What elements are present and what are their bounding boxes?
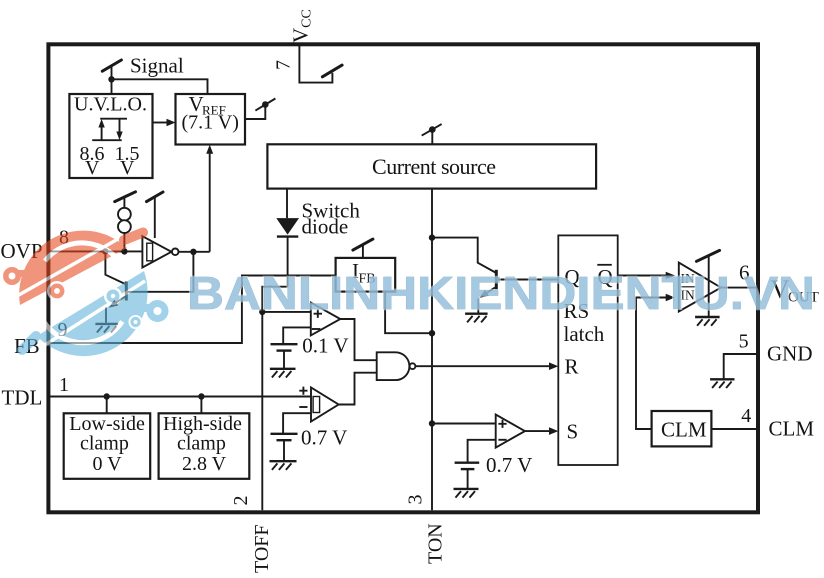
svg-text:GND: GND xyxy=(767,342,813,366)
U5 minus sign xyxy=(312,328,321,330)
wire diode branch to TOFF node xyxy=(262,287,287,312)
svg-text:0.1 V: 0.1 V xyxy=(302,333,348,357)
logo white diagonal cut blue xyxy=(45,281,145,345)
wire current source I1 to OVP wire xyxy=(123,233,125,251)
svg-text:clamp: clamp xyxy=(80,433,129,455)
node TOFF junction xyxy=(259,309,265,315)
UVLO hysteresis up arrow xyxy=(101,126,103,140)
wire current source to switch diode xyxy=(286,189,288,219)
switch above I_FB xyxy=(353,239,373,250)
switch at VREF xyxy=(255,99,275,111)
logo white pad cut small salmon ring xyxy=(47,281,67,301)
comparator U5 (0.1 V) xyxy=(311,303,341,336)
ground pin5 xyxy=(710,378,734,380)
wire OVP pin 8 xyxy=(48,250,142,252)
U5 plus sign xyxy=(314,310,322,318)
svg-text:0 V: 0 V xyxy=(93,453,123,475)
transistor Q1 emitter xyxy=(113,297,125,305)
current source I1 circles xyxy=(118,208,131,221)
switch diode D1 xyxy=(276,218,299,235)
wire TOFF node to U5 + input xyxy=(262,311,311,313)
wire CLM to buffer lower input xyxy=(636,298,666,430)
transistor Q1 collector xyxy=(105,251,125,284)
VREF box U2 xyxy=(176,94,246,145)
U6 minus sign xyxy=(299,406,307,408)
svg-text:(7.1 V): (7.1 V) xyxy=(182,112,239,134)
UVLO hysteresis bottom line xyxy=(92,139,122,141)
pin number 2 rotated xyxy=(230,496,252,506)
wire U3 output to pin 6 xyxy=(721,287,758,289)
node TON junction to Q2 xyxy=(429,234,435,240)
svg-text:V: V xyxy=(85,157,100,179)
logo blue arm right xyxy=(138,304,151,312)
pin label VCC rotated xyxy=(289,9,315,43)
wire NAND output to R input xyxy=(415,365,549,367)
svg-text:4: 4 xyxy=(741,405,751,427)
ground B3 xyxy=(454,488,479,490)
U7 output bubble xyxy=(410,363,416,369)
wire TON to U9 + input xyxy=(432,423,496,425)
comparator U9 (0.7 V) xyxy=(496,415,525,448)
wire FB pin 9 xyxy=(48,276,335,344)
pin label TOFF rotated xyxy=(251,524,273,573)
pin label TON rotated xyxy=(425,523,447,564)
wire TON line pin 3 xyxy=(431,189,433,511)
svg-text:TON: TON xyxy=(425,523,447,564)
wire TDL to high-side clamp xyxy=(200,397,202,414)
svg-text:Current source: Current source xyxy=(372,154,496,179)
Current source box xyxy=(267,144,596,188)
I_FB box xyxy=(336,258,396,292)
node Signal junction xyxy=(108,76,114,82)
battery B3 0.7V xyxy=(455,462,480,464)
svg-text:U.V.L.O.: U.V.L.O. xyxy=(74,94,147,116)
U4 hysteresis symbol xyxy=(147,243,153,261)
U6 plus sign xyxy=(299,387,307,395)
logo small salmon ring xyxy=(52,286,62,296)
wire U5 - input to battery B1 xyxy=(283,327,311,344)
logo blue ring right xyxy=(150,304,165,319)
wire UVLO to VREF arrow xyxy=(153,122,168,124)
Qbar overbar xyxy=(597,264,612,266)
svg-text:clamp: clamp xyxy=(177,433,226,455)
svg-text:0.7 V: 0.7 V xyxy=(301,426,347,450)
U4 output bubble xyxy=(172,249,179,256)
wire TDL pin 1 xyxy=(48,396,310,398)
logo salmon tail swoosh xyxy=(124,233,143,241)
wire latch Qbar to buffer U3 xyxy=(618,275,666,277)
node TON-IFB junction xyxy=(429,330,435,336)
transistor Q1 base bar xyxy=(125,282,128,301)
RS latch box U8 xyxy=(558,235,617,465)
logo white pad cut blue dot xyxy=(129,315,143,329)
switch Signal stub xyxy=(111,67,113,80)
ground B1 xyxy=(270,368,296,370)
inverter U4 triangle xyxy=(142,236,171,267)
UVLO hysteresis down arrow xyxy=(119,119,121,133)
pin 7 wire (VCC) xyxy=(299,44,332,82)
logo small blue ring xyxy=(109,292,118,301)
comparator U6 (0.7 V hysteresis) xyxy=(311,388,339,422)
wire U9 - input to battery B3 xyxy=(468,440,496,463)
battery B1 0.1V xyxy=(271,343,298,345)
svg-text:V: V xyxy=(120,157,135,179)
svg-text:diode: diode xyxy=(302,215,349,239)
switch above inverter U4 xyxy=(147,192,164,202)
transistor Q2 base bar xyxy=(495,270,498,290)
U9 plus sign xyxy=(498,420,506,428)
output buffer U3 triangle xyxy=(679,263,721,312)
U6 hysteresis symbol xyxy=(313,397,320,413)
Low-side clamp box xyxy=(64,413,151,479)
ground U3 xyxy=(695,316,720,318)
svg-text:7: 7 xyxy=(273,60,295,70)
wire TON to Q2 collector xyxy=(432,238,495,273)
svg-text:3: 3 xyxy=(405,495,427,505)
wire GND pin 5 xyxy=(724,354,758,379)
svg-text:TDL: TDL xyxy=(2,386,43,410)
logo white diagonal cut salmon xyxy=(17,239,118,296)
logo white arc cut top xyxy=(45,243,124,268)
switch Signal xyxy=(102,60,121,71)
watermark logo (banlinhkiendientu) xyxy=(6,231,165,356)
wire I_FB bottom to TON line xyxy=(385,292,432,334)
wire U9 output to S input xyxy=(525,430,550,432)
svg-text:1: 1 xyxy=(59,374,69,396)
wire U4 output xyxy=(179,251,210,253)
UVLO hysteresis top line xyxy=(100,118,127,120)
wire U6 - input to battery B2 xyxy=(283,413,311,433)
wire TDL to low-side clamp xyxy=(106,397,108,414)
node current source switch dot xyxy=(429,126,436,133)
svg-text:2: 2 xyxy=(230,496,252,506)
CLM box xyxy=(652,411,712,446)
U.V.L.O. box U1 xyxy=(69,94,152,178)
svg-text:BANLINHKIENDIENTU.VN: BANLINHKIENDIENTU.VN xyxy=(187,267,815,319)
transistor Q2 emitter xyxy=(484,288,495,295)
node OVP junction A xyxy=(102,248,108,254)
svg-text:S: S xyxy=(567,420,579,444)
svg-text:Signal: Signal xyxy=(130,54,184,78)
pin number 3 rotated xyxy=(405,495,427,505)
pin number 7 rotated xyxy=(273,60,295,70)
logo salmon arm xyxy=(18,270,29,277)
ground B2 xyxy=(270,460,297,462)
svg-text:CLM: CLM xyxy=(769,417,815,441)
wire Q2 base to latch Q xyxy=(496,279,558,281)
wire feedback to Q1 base xyxy=(128,252,194,292)
wire Signal to VREF top xyxy=(112,79,208,94)
logo white pad cut small blue ring xyxy=(104,287,122,305)
INbar overbar xyxy=(681,286,696,288)
svg-text:5: 5 xyxy=(739,331,749,353)
IC outer border xyxy=(48,44,758,512)
svg-text:R: R xyxy=(565,355,579,379)
ground Q2 emitter xyxy=(465,313,488,315)
switch at pin 7 xyxy=(322,65,342,77)
node TDL junction B xyxy=(198,393,204,399)
svg-text:0.7 V: 0.7 V xyxy=(486,453,532,477)
logo white arc cut bottom xyxy=(44,322,123,343)
svg-text:CLM: CLM xyxy=(661,418,707,442)
switch above current source box xyxy=(422,124,442,136)
svg-text:2.8 V: 2.8 V xyxy=(182,453,227,475)
svg-text:TOFF: TOFF xyxy=(251,524,273,573)
wire U5 output to NAND xyxy=(340,319,376,360)
switch above I1 xyxy=(115,192,136,202)
node OVP junction B xyxy=(121,248,127,254)
wire CLM pin 4 xyxy=(711,428,757,430)
logo blue half-disc xyxy=(37,271,148,356)
switch above U3 xyxy=(697,250,720,261)
logo blue tail swoosh xyxy=(22,336,36,350)
ground Q1 emitter xyxy=(95,323,118,325)
NAND gate U7 xyxy=(377,352,410,380)
svg-text:latch: latch xyxy=(564,322,605,346)
node U4 output junction xyxy=(190,249,196,255)
wire VREF right to trim switch xyxy=(245,107,265,119)
High-side clamp box xyxy=(159,413,250,479)
wire diode down xyxy=(287,237,289,287)
wire Signal junction down to UVLO xyxy=(111,79,113,94)
node VREF switch dot xyxy=(262,101,269,108)
wire TOFF line pin 2 xyxy=(261,312,263,510)
logo salmon half-disc xyxy=(19,231,127,305)
logo small blue dot xyxy=(132,318,139,325)
wire U6 output to NAND xyxy=(339,373,377,405)
logo salmon ring left xyxy=(6,270,18,282)
node TON junction to U9 xyxy=(429,420,435,426)
battery B2 0.7V xyxy=(271,433,298,435)
node TDL junction A xyxy=(104,393,110,399)
U9 minus sign xyxy=(498,439,506,441)
wire U4 output up to VREF arrow xyxy=(209,153,211,252)
